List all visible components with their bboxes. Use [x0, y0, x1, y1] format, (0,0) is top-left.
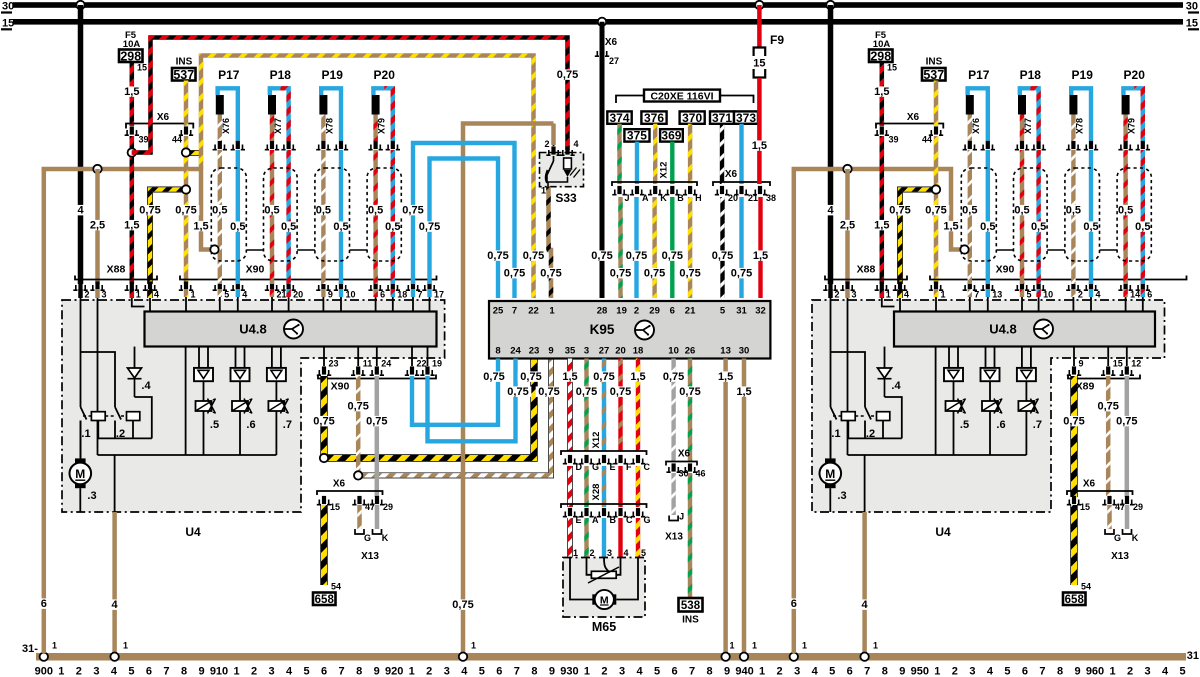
injector valve .7 left — [268, 401, 284, 411]
pin X90b.19 left — [420, 366, 434, 375]
coil P17 primary wire right — [968, 115, 972, 142]
coil P20 body left — [372, 95, 380, 115]
svg-text:6: 6 — [670, 306, 675, 317]
svg-text:X12: X12 — [591, 432, 602, 449]
coil P18 blue loop left — [270, 88, 281, 95]
svg-text:0,75: 0,75 — [1097, 401, 1118, 413]
svg-text:31: 31 — [736, 306, 747, 317]
svg-text:1: 1 — [471, 641, 476, 651]
pin X90.13 right — [981, 281, 995, 290]
svg-text:0,75: 0,75 — [610, 386, 631, 398]
pin X90.7 right — [963, 281, 977, 290]
coil P20 blue loop right — [1123, 88, 1134, 95]
lead X90 x323.4 right — [1072, 297, 1074, 312]
svg-text:6: 6 — [321, 666, 327, 677]
svg-text:4: 4 — [827, 205, 834, 217]
svg-text:950: 950 — [911, 666, 929, 677]
driver .7 feed b right — [1030, 347, 1032, 368]
svg-text:4: 4 — [111, 666, 118, 677]
collector bus left — [98, 454, 277, 456]
black/red wire X6.39 to S33.4 — [132, 38, 568, 153]
lead X90 x237.8 right — [987, 297, 989, 312]
exit lead left — [114, 455, 116, 512]
svg-text:8: 8 — [495, 346, 500, 357]
svg-text:1,5: 1,5 — [874, 220, 889, 232]
svg-text:2: 2 — [777, 666, 783, 677]
lead X88.4 into box left — [149, 298, 151, 312]
box lead 22 left — [411, 347, 413, 366]
svg-text:15: 15 — [753, 58, 765, 70]
valve .7 lead right — [1025, 411, 1027, 455]
svg-text:3: 3 — [852, 290, 857, 300]
pin X90b.24 left — [370, 366, 384, 375]
svg-text:1: 1 — [191, 290, 196, 300]
svg-text:2: 2 — [76, 666, 82, 677]
red wire X12.F-X28.C — [618, 466, 622, 507]
svg-text:658: 658 — [1065, 594, 1085, 606]
pin X28.E — [563, 508, 577, 517]
pin X90b.11 left — [351, 366, 365, 375]
gauge 0,75 X90.7 — [400, 205, 427, 215]
exit lead right — [864, 455, 866, 512]
connector X90 rail right — [930, 276, 1187, 280]
M65 lead pin1 — [570, 558, 593, 600]
svg-text:0,5: 0,5 — [281, 221, 296, 233]
svg-text:X6: X6 — [907, 112, 920, 123]
pin X77 a right — [1015, 141, 1029, 150]
svg-text:X13: X13 — [1111, 551, 1129, 562]
red/white wire X28.E-M65.1 — [567, 518, 573, 558]
svg-text:9: 9 — [1074, 666, 1080, 677]
pin X79 a left — [368, 141, 382, 150]
red/brown wire K95.20-X12.F — [618, 359, 622, 452]
pin 44 X6 left — [179, 126, 193, 135]
pin X78 a left — [316, 141, 330, 150]
svg-text:28: 28 — [597, 306, 608, 317]
shield link wire 1 right — [996, 249, 1013, 251]
svg-text:X28: X28 — [591, 484, 602, 501]
svg-text:376: 376 — [644, 111, 664, 125]
svg-text:4: 4 — [77, 205, 84, 217]
svg-text:6: 6 — [496, 666, 502, 677]
pin X90.9 left — [316, 281, 330, 290]
stub X90 x392.8 left — [391, 289, 395, 297]
lead X88.2 to relay contact right — [830, 298, 832, 407]
gauge 1,5 fuse right — [872, 86, 892, 96]
svg-text:9: 9 — [899, 666, 905, 677]
svg-text:47: 47 — [365, 502, 375, 512]
pin X88.3 left — [90, 281, 104, 290]
gauge 0,75 below K95 at 586.5 — [573, 386, 600, 396]
lead X88.4 into box right — [899, 298, 901, 312]
green wire 369-X12.B — [670, 142, 674, 184]
pin X6.21 — [734, 186, 748, 195]
blue wire K95.25-X90.17 — [430, 159, 499, 299]
brown/yellow wire 537-X6.44 left — [184, 81, 189, 127]
junction rail31 K95.30 — [740, 653, 748, 661]
diode loop left — [135, 397, 152, 438]
svg-text:0,75: 0,75 — [889, 205, 910, 217]
box feed lead left — [185, 347, 187, 455]
svg-text:29: 29 — [1133, 502, 1143, 512]
svg-text:0,75: 0,75 — [663, 371, 684, 383]
svg-text:X79: X79 — [1127, 118, 1137, 134]
svg-text:30: 30 — [679, 469, 689, 479]
svg-text:6: 6 — [146, 666, 152, 677]
svg-text:P19: P19 — [322, 68, 344, 82]
wire P18 brown to X90 left — [270, 150, 274, 284]
gauge 1,5 below K95 at 744 — [734, 386, 754, 396]
svg-text:1: 1 — [136, 290, 141, 300]
gauge 1,5 brown left — [191, 221, 211, 231]
pin X12.C — [631, 455, 645, 464]
svg-text:13: 13 — [720, 346, 731, 357]
svg-text:35: 35 — [565, 346, 576, 357]
svg-text:1: 1 — [802, 641, 807, 651]
svg-text:5: 5 — [304, 666, 310, 677]
svg-text:2: 2 — [601, 666, 607, 677]
gauge 0,75 yb right — [1061, 416, 1088, 426]
white/brown wire to K95.9 — [358, 359, 551, 476]
blue wire X28.B-M65.3 — [602, 518, 606, 558]
gauge 4b left — [111, 599, 119, 609]
svg-text:1,5: 1,5 — [753, 250, 768, 262]
wire P20 blue to X90 left — [391, 150, 395, 284]
stub X88.1 right — [880, 289, 885, 298]
diode loop right — [885, 397, 902, 438]
gauge 0,5 P18 a right — [1012, 205, 1032, 215]
svg-text:1,5: 1,5 — [562, 371, 577, 383]
svg-text:G: G — [1114, 533, 1121, 543]
svg-text:.5: .5 — [210, 419, 219, 431]
module U4.8 box left — [145, 312, 437, 347]
M65 lead pin5 — [616, 558, 638, 600]
pin X90.7 left — [406, 281, 420, 290]
gauge 1,5 fuse left — [122, 86, 142, 96]
pin X90.10 right — [1031, 281, 1045, 290]
box lead 23 left — [323, 347, 325, 366]
svg-text:4: 4 — [623, 548, 628, 558]
svg-text:24: 24 — [510, 346, 521, 357]
wire P20 brown to X90 left — [373, 150, 377, 284]
svg-text:X88: X88 — [857, 264, 876, 276]
branch to relay.2 contact right — [831, 352, 866, 407]
pin X6.38 — [753, 186, 767, 195]
svg-text:2: 2 — [251, 666, 257, 677]
gauge 0,5 P19 b left — [331, 221, 351, 231]
diode .4 left — [128, 368, 142, 378]
svg-text:K: K — [382, 533, 389, 543]
spark plug shield P18 left — [264, 168, 298, 261]
coil P19 body right — [1069, 95, 1077, 115]
brown/yellow wire 537-X6.44 right — [934, 81, 939, 127]
gauge 6 left — [40, 598, 48, 608]
svg-text:X6: X6 — [725, 169, 738, 180]
gauge 0,75 below K95 at 549 — [536, 386, 563, 396]
pin X28.B — [597, 508, 611, 517]
pin X90.21 left — [265, 281, 279, 290]
pin 39 X6 left — [125, 126, 139, 135]
module U4.8 icon right — [1034, 320, 1053, 339]
connector X6 j rail — [666, 462, 697, 466]
svg-text:1: 1 — [886, 290, 891, 300]
stub X88.4 left — [147, 289, 153, 298]
black/white wire X6.20-K95.5 — [720, 197, 724, 298]
pin X6.29 right — [1120, 496, 1134, 505]
svg-text:4: 4 — [1162, 666, 1169, 677]
pin X90.20 left — [281, 281, 295, 290]
svg-text:0,5: 0,5 — [1014, 205, 1029, 217]
svg-text:39: 39 — [889, 135, 899, 145]
svg-text:P18: P18 — [270, 68, 292, 82]
power box 537 INS right — [922, 68, 946, 82]
M65 potentiometer — [591, 571, 616, 578]
svg-text:M65: M65 — [592, 620, 616, 634]
red/yellow wire X28.G-M65.5 — [636, 518, 640, 558]
svg-text:0,75: 0,75 — [679, 268, 700, 280]
coil P20 blue loop left — [373, 88, 384, 95]
svg-text:0,75: 0,75 — [139, 205, 160, 217]
connector X28 rail — [561, 504, 647, 508]
pin X90b.23 left — [317, 366, 331, 375]
svg-text:29: 29 — [383, 502, 393, 512]
red wire F9-X6.38 — [757, 78, 762, 184]
svg-text:0,75: 0,75 — [504, 268, 525, 280]
shield link wire 3 left — [350, 249, 368, 251]
svg-text:10: 10 — [346, 290, 356, 300]
svg-text:0,5: 0,5 — [385, 221, 400, 233]
pin X88.2 right — [823, 281, 837, 290]
svg-text:2: 2 — [634, 306, 639, 317]
coil P19 primary wire right — [1071, 115, 1075, 142]
gauge 0,75 at 654.6 — [641, 268, 668, 278]
svg-text:4: 4 — [636, 666, 643, 677]
brown/yellow wire X12.K-K95.29 — [652, 197, 656, 298]
spark plug shield P17 left — [211, 168, 246, 261]
svg-text:7: 7 — [512, 306, 517, 317]
svg-text:5: 5 — [479, 666, 485, 677]
pin X79 b right — [1136, 141, 1150, 150]
pin X6.15 left — [317, 496, 331, 505]
svg-text:30: 30 — [2, 1, 14, 13]
fuse wire black/red upper right — [880, 62, 885, 126]
lead X90 x392.8 left — [392, 297, 394, 312]
sensor box 374 — [607, 111, 631, 125]
stub X90 x272 left — [270, 289, 274, 297]
stub X90 x429.5 left — [427, 289, 431, 297]
engine code box C20XE 116VI — [644, 90, 720, 103]
svg-text:X77: X77 — [1023, 118, 1033, 134]
coil P19 body left — [319, 95, 327, 115]
control unit U4 region left — [62, 300, 445, 512]
svg-text:X76: X76 — [971, 118, 981, 134]
svg-text:.1: .1 — [81, 428, 90, 440]
coil .1 lead down left — [97, 421, 99, 439]
gauge 1,5 X88.1 left — [122, 220, 142, 230]
M65 lead pin2 — [587, 558, 592, 575]
coil P18 primary wire left — [270, 115, 274, 142]
svg-text:0,75: 0,75 — [626, 250, 647, 262]
pin X90.17 left — [422, 281, 436, 290]
fuse F9 symbol — [754, 48, 766, 78]
stub X90 x288.6 left — [286, 289, 290, 297]
coil P18 blue/red loop left — [280, 88, 288, 141]
svg-text:1: 1 — [123, 641, 128, 651]
svg-text:1,5: 1,5 — [630, 371, 645, 383]
brown wire K95.30-rail31 — [742, 359, 747, 654]
yellow/black wire to X88.4 left — [150, 190, 186, 285]
coordinate scale 900-960 — [35, 666, 1186, 677]
stub X90 x341 left — [339, 289, 343, 297]
svg-text:4: 4 — [286, 666, 293, 677]
svg-text:920: 920 — [385, 666, 403, 677]
svg-text:537: 537 — [923, 68, 944, 82]
gauge 0,75 at 636.5 — [623, 250, 650, 260]
pin X90.10 left — [334, 281, 348, 290]
svg-text:M: M — [825, 467, 835, 481]
svg-text:C20XE 116VI: C20XE 116VI — [650, 90, 713, 102]
diode .4 lead right — [884, 347, 886, 368]
relay coil .1 left — [91, 412, 105, 421]
brown/yellow wire to X90 right — [934, 136, 939, 284]
svg-text:0,75: 0,75 — [419, 221, 440, 233]
svg-text:.6: .6 — [996, 419, 1005, 431]
injector valve .6 left — [232, 401, 248, 411]
fuse wire black/red upper left — [130, 62, 135, 126]
gauge 0,5 P18 b right — [1028, 221, 1048, 231]
brown/yellow wire 370-X12.H — [688, 124, 692, 184]
brown/yellow wire X12.H-K95.21 — [688, 197, 692, 298]
shield link wire 2 right — [1047, 249, 1065, 251]
svg-text:X77: X77 — [273, 118, 283, 134]
black supply wire X88.2 right — [828, 5, 834, 284]
pin X76 b right — [981, 141, 995, 150]
junction X90.5 brown right — [960, 245, 968, 253]
gauge 0,75 at 722.5 — [709, 250, 736, 260]
svg-text:X6: X6 — [678, 449, 691, 460]
svg-text:39: 39 — [139, 135, 149, 145]
motor lead bottom right — [829, 488, 831, 512]
wire P18 blue to X90 right — [1036, 150, 1040, 284]
gauge 0,75 wb right — [1095, 401, 1122, 411]
pin X6.46 — [683, 463, 697, 472]
lead X88.3 down right — [847, 298, 849, 455]
stub X90 x392.8 right — [1141, 289, 1145, 297]
svg-text:3: 3 — [93, 666, 99, 677]
gauge 1,5 F9 — [749, 140, 769, 150]
svg-text:0,75: 0,75 — [593, 371, 614, 383]
stub X90 x288.6 right — [1036, 289, 1040, 297]
driver .6 feed a right — [985, 347, 987, 368]
stub X88.1 left — [130, 289, 135, 298]
svg-text:P20: P20 — [374, 68, 396, 82]
svg-text:12: 12 — [1131, 359, 1141, 369]
svg-text:1: 1 — [409, 666, 415, 677]
relay contact .2 right — [865, 407, 871, 438]
svg-text:7: 7 — [339, 666, 345, 677]
blue wire X12.E-X28.B — [602, 466, 606, 507]
box lead 12 right — [1126, 347, 1128, 366]
gauge 0,5 P20 a right — [1115, 205, 1135, 215]
svg-text:3: 3 — [794, 666, 800, 677]
spark plug shield P19 left — [315, 168, 350, 261]
gauge 2,5 left — [87, 220, 107, 230]
black/red wire to X88.1 left — [130, 153, 135, 285]
gray wire K-lead left — [375, 376, 380, 497]
yellow/black ground wire lower left — [320, 505, 327, 585]
terminal X13.J — [669, 512, 684, 522]
svg-text:X13: X13 — [361, 551, 379, 562]
ground box 658 right — [1063, 593, 1086, 606]
lead X90 x288.6 left — [288, 297, 290, 312]
svg-text:0,5: 0,5 — [1083, 221, 1098, 233]
svg-text:2: 2 — [835, 290, 840, 300]
connector X90 rail left — [180, 276, 437, 280]
black wire terminal 15 to K95.28 — [600, 22, 605, 298]
coil P17 body left — [216, 95, 224, 115]
svg-text:30: 30 — [1186, 1, 1198, 13]
driver stage .5 right — [944, 368, 963, 381]
svg-text:23: 23 — [529, 346, 540, 357]
svg-text:K95: K95 — [590, 322, 615, 337]
gauge 0,75 yellow/black right — [887, 205, 914, 215]
coil .1 lead down right — [847, 421, 849, 439]
svg-text:0,5: 0,5 — [1118, 205, 1133, 217]
svg-text:22: 22 — [528, 306, 539, 317]
pin X88.3 right — [840, 281, 854, 290]
svg-text:0,75: 0,75 — [313, 416, 334, 428]
brown ground wire S33.2 — [463, 124, 554, 654]
pin X28.G — [631, 508, 645, 517]
svg-text:538: 538 — [681, 600, 701, 612]
svg-text:0,75: 0,75 — [1116, 416, 1137, 428]
pin X88.1 right — [875, 281, 889, 290]
svg-text:0,5: 0,5 — [1031, 221, 1046, 233]
svg-text:0,5: 0,5 — [1066, 205, 1081, 217]
box lead 24 left — [376, 347, 378, 366]
motor lead top right — [830, 421, 832, 460]
driver stage .5 left — [194, 368, 213, 381]
svg-text:5: 5 — [1004, 666, 1010, 677]
pin X6.15 right — [1067, 496, 1081, 505]
brown/black wire S33.1 to K95.1 — [549, 187, 552, 298]
brown wire S33.2 vertical — [551, 124, 556, 146]
white/brown wire upper left — [356, 376, 361, 475]
yellow/black ground wire lower right — [1070, 505, 1077, 585]
brown/green wire K95.3-X12.G — [584, 359, 588, 452]
svg-text:1: 1 — [52, 641, 57, 651]
svg-text:3: 3 — [969, 666, 975, 677]
injector valve .7 right — [1018, 401, 1034, 411]
svg-text:.4: .4 — [141, 380, 151, 392]
wire P18 brown to X90 right — [1020, 150, 1024, 284]
pin X90.18 left — [386, 281, 400, 290]
sensor box 371 — [710, 111, 734, 125]
lead S33.2 up — [553, 124, 555, 147]
blue wire 375-X12.A — [635, 142, 639, 184]
gauge 2,5 right — [837, 220, 857, 230]
junction brown 2.5 branch left — [93, 165, 101, 173]
wire P17 blue to X90 left — [236, 150, 240, 284]
wire P19 brown to X90 right — [1071, 150, 1075, 284]
connector X6 rail right — [876, 124, 943, 129]
svg-text:7: 7 — [1039, 666, 1045, 677]
terminal X13.K right — [1123, 529, 1139, 543]
black/red wire pin39-junction right — [880, 136, 885, 153]
pin X6.30 — [666, 463, 680, 472]
stub X90 x186 right — [934, 289, 938, 297]
svg-text:3: 3 — [102, 290, 107, 300]
